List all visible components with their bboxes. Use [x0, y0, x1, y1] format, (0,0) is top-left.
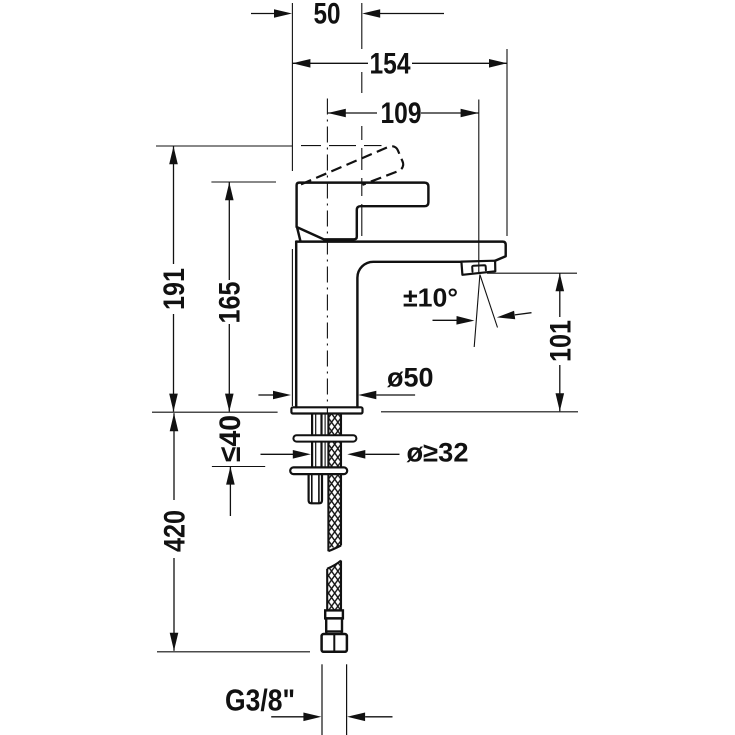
svg-text:154: 154 — [370, 47, 411, 80]
svg-text:420: 420 — [159, 510, 192, 552]
svg-text:50: 50 — [314, 0, 341, 30]
svg-text:±10°: ±10° — [403, 283, 458, 313]
svg-text:165: 165 — [214, 282, 247, 324]
svg-text:G3/8": G3/8" — [225, 683, 295, 718]
svg-text:191: 191 — [158, 268, 191, 310]
svg-text:101: 101 — [544, 320, 577, 362]
svg-text:≤40: ≤40 — [214, 415, 247, 462]
svg-text:ø50: ø50 — [387, 362, 434, 392]
svg-text:ø≥32: ø≥32 — [407, 438, 469, 468]
svg-text:109: 109 — [381, 97, 422, 130]
